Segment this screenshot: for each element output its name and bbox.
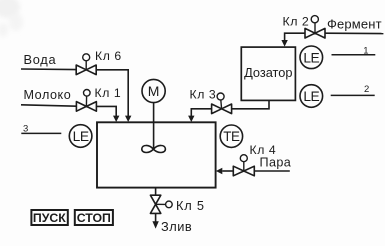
arrow water into tank (125, 116, 131, 122)
valve Кл6 (76, 54, 96, 75)
agitator propeller (142, 145, 166, 152)
svg-text:Кл 6: Кл 6 (95, 49, 122, 63)
pipe dosator to tank (191, 109, 211, 117)
agitator shaft (153, 103, 155, 149)
valve Кл5 (150, 195, 172, 213)
svg-text:Дозатор: Дозатор (244, 65, 292, 80)
instrument LE upper right (300, 46, 323, 69)
scan smudge top-left (0, 0, 23, 37)
svg-text:ПУСК: ПУСК (33, 211, 66, 225)
pipe water to tank (96, 70, 128, 117)
svg-text:М: М (148, 83, 160, 99)
svg-text:Кл 1: Кл 1 (95, 86, 122, 100)
svg-text:Вода: Вода (24, 52, 57, 67)
pipe drain from tank (155, 188, 157, 196)
instrument LE left (69, 125, 92, 148)
motor M (142, 79, 165, 102)
instrument LE lower right (300, 85, 323, 108)
pipe ferment inlet (325, 32, 383, 34)
pipe milk to tank (96, 106, 116, 116)
instrument TE (220, 125, 242, 147)
arrow ferment into dosator (281, 40, 287, 47)
svg-text:LE: LE (73, 129, 89, 144)
pipe ferment to dosator (285, 33, 305, 41)
pipe milk inlet (21, 105, 76, 106)
arrow drain (152, 221, 158, 228)
vessel tank (97, 122, 216, 187)
svg-text:Кл 5: Кл 5 (176, 198, 205, 213)
vessel Дозатор (241, 47, 295, 100)
svg-text:Пара: Пара (260, 156, 292, 170)
pipe drain outlet (155, 213, 157, 222)
svg-text:СТОП: СТОП (77, 211, 111, 225)
pipe water inlet (21, 68, 76, 71)
wire node 1 (332, 54, 376, 56)
valve Кл1 (76, 90, 96, 112)
arrow dosator into tank (188, 116, 194, 122)
svg-text:Злив: Злив (161, 219, 192, 234)
wire node 2 (331, 94, 375, 96)
svg-text:ТЕ: ТЕ (223, 129, 240, 144)
valve Кл4 (233, 155, 254, 176)
svg-text:Кл 2: Кл 2 (283, 15, 310, 29)
arrow steam into tank (216, 168, 222, 174)
wire node 3 (21, 132, 61, 134)
svg-text:LE: LE (303, 89, 319, 104)
pipe dosator outlet (232, 100, 269, 108)
button ПУСК (31, 210, 67, 225)
valve Кл2 (305, 16, 325, 38)
svg-text:Фермент: Фермент (327, 17, 382, 32)
svg-text:LE: LE (303, 50, 319, 65)
button СТОП (75, 210, 113, 225)
pipe steam inlet (254, 170, 289, 172)
valve Кл3 (212, 93, 232, 114)
pipe steam to tank (222, 170, 233, 172)
arrow milk into tank (113, 116, 119, 122)
svg-text:Кл 3: Кл 3 (190, 88, 217, 102)
svg-text:2: 2 (364, 84, 369, 95)
svg-text:Молоко: Молоко (24, 88, 72, 102)
